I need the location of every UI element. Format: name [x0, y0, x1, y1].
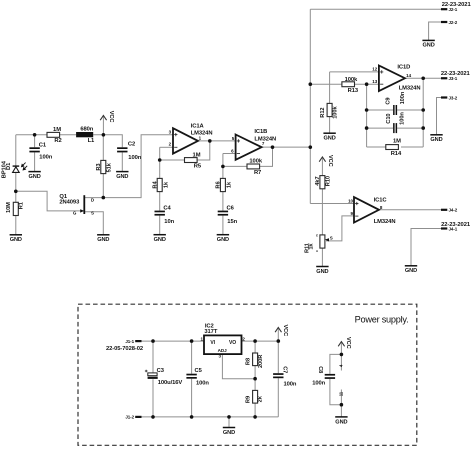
svg-text:200R: 200R [258, 355, 264, 368]
svg-text:100k: 100k [249, 158, 262, 164]
svg-text:C1: C1 [39, 143, 47, 149]
svg-text:GND: GND [335, 419, 347, 425]
svg-text:680n: 680n [80, 127, 93, 133]
svg-text:12: 12 [372, 67, 377, 72]
svg-text:GND: GND [154, 237, 166, 243]
svg-text:R2: R2 [54, 138, 61, 144]
svg-text:10n: 10n [164, 219, 174, 225]
svg-text:100n: 100n [196, 380, 209, 386]
svg-text:100n: 100n [39, 154, 52, 160]
svg-text:GND: GND [422, 43, 434, 49]
svg-text:2N4093: 2N4093 [59, 199, 80, 205]
svg-text:VCC: VCC [327, 155, 333, 167]
svg-text:LM324N: LM324N [399, 86, 421, 92]
svg-text:GND: GND [28, 174, 40, 180]
svg-text:C8: C8 [317, 366, 323, 373]
svg-text:C4: C4 [163, 205, 171, 211]
svg-text:C10: C10 [386, 113, 392, 123]
svg-text:IC1C: IC1C [374, 198, 388, 204]
svg-text:100k: 100k [345, 77, 358, 83]
svg-text:GND: GND [430, 137, 442, 143]
svg-text:51k: 51k [106, 162, 112, 172]
svg-text:GND: GND [10, 237, 22, 243]
svg-text:1M: 1M [53, 127, 61, 133]
svg-text:14: 14 [406, 73, 411, 78]
svg-text:100n: 100n [312, 381, 325, 387]
svg-text:E: E [316, 233, 318, 237]
svg-text:11: 11 [338, 391, 343, 396]
svg-text:J2-2: J2-2 [449, 20, 458, 25]
svg-text:4k7: 4k7 [315, 176, 321, 185]
svg-text:100n: 100n [400, 91, 406, 104]
svg-text:R7: R7 [254, 170, 261, 176]
svg-text:R12: R12 [320, 107, 326, 117]
svg-text:C5: C5 [195, 368, 203, 374]
svg-text:GND: GND [97, 237, 109, 243]
svg-text:R5: R5 [194, 163, 202, 169]
svg-text:J3-2: J3-2 [449, 96, 458, 101]
svg-text:VCC: VCC [345, 337, 351, 349]
svg-text:VCC: VCC [108, 111, 114, 123]
svg-text:100n: 100n [399, 112, 405, 125]
svg-text:R4: R4 [152, 181, 158, 189]
svg-text:IC1A: IC1A [191, 123, 205, 129]
svg-text:GND: GND [223, 430, 235, 436]
svg-text:LM324N: LM324N [254, 137, 276, 143]
svg-text:C6: C6 [227, 205, 235, 211]
svg-text:G: G [73, 211, 77, 216]
svg-text:Power supply.: Power supply. [355, 315, 409, 325]
svg-text:IC1D: IC1D [397, 64, 410, 70]
svg-text:GND: GND [323, 136, 335, 142]
svg-text:D1: D1 [6, 163, 12, 170]
svg-text:GND: GND [217, 237, 229, 243]
svg-text:100n: 100n [128, 155, 141, 161]
svg-text:22-05-7028-02: 22-05-7028-02 [106, 346, 143, 352]
svg-text:100u/16V: 100u/16V [158, 380, 183, 386]
svg-text:R6: R6 [216, 181, 222, 188]
svg-text:R1: R1 [19, 202, 25, 209]
svg-text:VCC: VCC [282, 325, 288, 337]
svg-text:L1: L1 [88, 138, 95, 144]
svg-text:J4-1: J4-1 [449, 226, 458, 231]
svg-text:J4-2: J4-2 [449, 208, 458, 213]
svg-text:R10: R10 [325, 176, 331, 186]
svg-text:ADJ: ADJ [218, 348, 227, 353]
svg-text:LM324N: LM324N [374, 219, 396, 225]
svg-text:R3: R3 [96, 164, 102, 171]
svg-text:R9: R9 [246, 396, 252, 403]
svg-text:10: 10 [348, 199, 353, 204]
svg-text:J1-1: J1-1 [125, 339, 134, 344]
svg-text:J3-1: J3-1 [449, 76, 458, 81]
svg-text:J2-1: J2-1 [449, 7, 458, 12]
svg-text:1k: 1k [163, 181, 169, 188]
svg-text:C7: C7 [282, 366, 288, 373]
svg-text:13: 13 [372, 79, 377, 84]
svg-text:1k: 1k [227, 181, 233, 188]
svg-text:C3: C3 [157, 368, 165, 374]
svg-text:2k: 2k [258, 395, 264, 402]
svg-text:C2: C2 [128, 142, 135, 148]
svg-text:VI: VI [210, 340, 215, 346]
svg-text:1M: 1M [393, 139, 401, 145]
svg-text:1M: 1M [193, 153, 201, 159]
svg-text:100k: 100k [332, 106, 338, 119]
svg-text:10M: 10M [6, 202, 12, 213]
svg-text:317T: 317T [204, 329, 217, 335]
svg-text:S: S [330, 236, 333, 241]
svg-text:VO: VO [229, 340, 236, 346]
svg-text:15n: 15n [227, 219, 237, 225]
svg-text:J1-2: J1-2 [125, 415, 134, 420]
svg-text:GND: GND [405, 268, 417, 274]
svg-text:S: S [91, 211, 94, 216]
svg-text:GND: GND [316, 269, 328, 275]
svg-text:R14: R14 [391, 151, 402, 157]
svg-text:1k: 1k [308, 243, 314, 250]
svg-text:LM324N: LM324N [191, 130, 213, 136]
svg-text:R13: R13 [348, 88, 359, 94]
svg-text:100n: 100n [284, 381, 297, 387]
svg-text:GND: GND [116, 174, 128, 180]
svg-text:R8: R8 [246, 358, 252, 365]
svg-text:C9: C9 [386, 98, 392, 105]
svg-text:IC1B: IC1B [254, 129, 267, 135]
